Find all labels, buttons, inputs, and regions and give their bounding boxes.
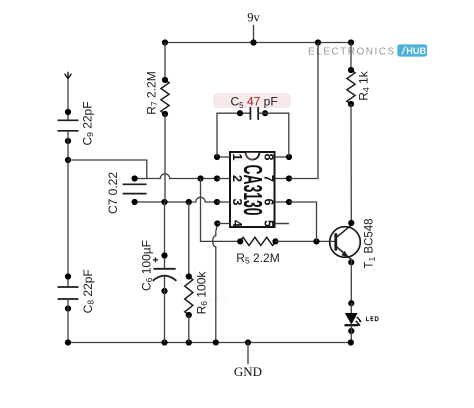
wire rail to R4: [350, 43, 352, 71]
junction dot rail GND: [245, 339, 251, 345]
svg-text:9v: 9v: [247, 11, 260, 25]
wire pin3 row to C6: [164, 202, 166, 269]
wire pin7 to rail: [289, 43, 318, 179]
pin 4 dot: [214, 220, 220, 226]
junction dot pin7 supply: [315, 39, 321, 45]
junction dot rail C6: [161, 339, 167, 345]
op-amp U1 pin stubs: [217, 156, 230, 158]
wire antenna branch to pin2 row: [68, 160, 147, 178]
wire pin1 to C5: [217, 113, 250, 157]
junction dot top rail left: [162, 39, 168, 45]
svg-text:C7 0.22: C7 0.22: [106, 172, 120, 214]
wire C8 to ground rail: [67, 299, 69, 343]
pin 8 dot: [286, 154, 292, 160]
svg-text:C8 22pF: C8 22pF: [81, 269, 96, 313]
junction dot R6 top: [186, 199, 192, 205]
wire ground rail: [68, 342, 351, 344]
wire C9 to C8: [67, 131, 69, 287]
svg-text:1: 1: [230, 154, 244, 161]
emitter dot: [348, 259, 354, 265]
capacitor C7: [123, 183, 147, 185]
resistor R4: [347, 70, 355, 104]
ground GND stub: [247, 343, 249, 365]
wire pin6 to base junction: [289, 202, 317, 241]
collector junction dot: [348, 220, 354, 226]
LED D1: [345, 300, 362, 342]
wire R5 to base junction: [276, 240, 336, 242]
junction dot C6 bottom lead: [161, 288, 167, 294]
junction dot R7 bottom drop: [161, 199, 167, 205]
wire pin3 row to R6: [188, 202, 190, 277]
wire R6 to rail: [188, 315, 190, 343]
wire top 9V rail: [165, 42, 351, 44]
junction node antenna branch: [65, 157, 71, 163]
svg-text:C5 47 pF: C5 47 pF: [231, 95, 278, 111]
wire R4 to collector: [350, 104, 352, 223]
wire emitter to LED: [350, 260, 352, 304]
pin 7 dot: [286, 175, 292, 181]
svg-text:6: 6: [262, 199, 276, 206]
junction dot feedback drop: [197, 175, 203, 181]
junction dot rail R6: [186, 339, 192, 345]
pin 1 dot: [214, 154, 220, 160]
svg-text:R6 100k: R6 100k: [195, 271, 210, 315]
resistor R5: [240, 237, 275, 245]
wire R7 to pin3 row: [164, 114, 166, 202]
wire antenna to C9: [67, 79, 69, 121]
antenna symbol: [65, 72, 72, 79]
wire pin3 row with hop over feedback drop: [135, 197, 217, 202]
svg-text:ELECTRONICS: ELECTRONICS: [308, 47, 396, 58]
svg-text:R7 2.2M: R7 2.2M: [145, 71, 160, 114]
capacitor C5: [249, 107, 251, 120]
capacitor C6 plus sign: [153, 257, 158, 262]
wire rail to R7: [164, 43, 166, 81]
svg-text:C6 100µF: C6 100µF: [140, 240, 155, 291]
pin 6 dot: [286, 199, 292, 205]
wire C6 to rail: [164, 276, 166, 343]
junction dot rail LED: [348, 339, 354, 345]
junction dot rail C8: [65, 339, 71, 345]
junction dot 9v: [250, 39, 256, 45]
junction dot C7 top: [132, 175, 138, 181]
svg-text:HUB: HUB: [406, 46, 426, 56]
svg-text:8: 8: [262, 154, 276, 161]
decorative watermark: [167, 264, 228, 309]
junction dot rail pin4: [213, 339, 219, 345]
node 9v stub wire: [253, 25, 255, 43]
pin 3 dot: [214, 199, 220, 205]
junction dot base: [313, 238, 319, 244]
logo HUB badge: [397, 44, 427, 56]
svg-text:4: 4: [230, 220, 244, 227]
resistor R7: [161, 80, 169, 114]
LED label: [367, 317, 379, 321]
resistor R6: [185, 277, 193, 316]
transistor T1 BC548: [330, 225, 361, 259]
capacitor C9: [58, 119, 79, 121]
wire C5 to pin8: [259, 113, 289, 157]
wire pin4 to ground rail: [213, 224, 218, 343]
svg-text:2: 2: [230, 175, 244, 182]
op-amp U1 CA3130 body: [230, 152, 275, 227]
svg-text:R5 2.2M: R5 2.2M: [236, 251, 279, 266]
svg-text:GND: GND: [234, 364, 262, 379]
svg-text:3: 3: [230, 199, 244, 206]
junction dot R4 top: [348, 39, 354, 45]
svg-text:C9 22pF: C9 22pF: [81, 101, 96, 145]
pin 5 stub: [275, 223, 290, 225]
wire pin2 drop to R5 row: [201, 179, 241, 242]
capacitor C6: [153, 268, 175, 270]
pin 2 dot: [214, 175, 220, 181]
svg-text:7: 7: [262, 175, 276, 182]
svg-text:R4 1k: R4 1k: [357, 70, 372, 100]
svg-text:CA3130: CA3130: [238, 165, 268, 216]
capacitor C8: [58, 286, 79, 288]
svg-text:5: 5: [262, 220, 276, 227]
wire pin2 row with hop over R7 drop: [135, 174, 217, 179]
junction dot C6 top lead: [161, 252, 167, 258]
junction dot C7 bottom: [132, 199, 138, 205]
